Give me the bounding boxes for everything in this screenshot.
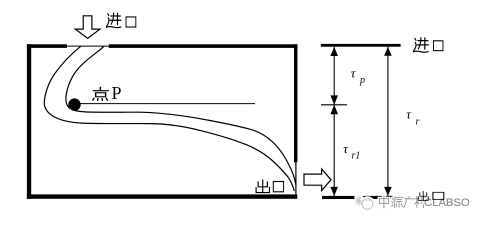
svg-text:P: P [112,83,122,103]
svg-text:CLABSO: CLABSO [424,197,470,209]
svg-text:τ: τ [351,66,357,81]
svg-text:τ: τ [406,107,412,122]
svg-text:r: r [416,117,420,128]
svg-text:r1: r1 [352,151,361,162]
svg-text:τ: τ [343,141,349,156]
svg-text:p: p [359,75,365,86]
